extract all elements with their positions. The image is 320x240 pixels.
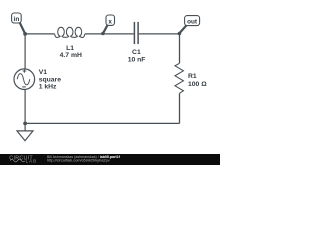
svg-text:C1: C1 bbox=[132, 49, 141, 56]
svg-text:out: out bbox=[187, 19, 198, 26]
svg-text:100 Ω: 100 Ω bbox=[188, 81, 207, 88]
resistor R1 bbox=[175, 63, 183, 93]
footer credit text bbox=[47, 155, 121, 163]
label C1 value bbox=[128, 49, 146, 63]
svg-text:V1: V1 bbox=[39, 69, 48, 76]
svg-text:1 kHz: 1 kHz bbox=[39, 84, 57, 91]
wire bbox=[85, 33, 134, 35]
node flag in bbox=[12, 13, 25, 34]
wire bbox=[179, 34, 181, 63]
svg-text:x: x bbox=[108, 18, 112, 25]
svg-text:10 nF: 10 nF bbox=[128, 57, 146, 64]
node junction out bbox=[178, 32, 182, 36]
svg-text:LAB: LAB bbox=[26, 159, 38, 164]
svg-text:R1: R1 bbox=[188, 73, 197, 80]
svg-text:4.7 mH: 4.7 mH bbox=[60, 52, 82, 59]
ground bbox=[17, 131, 33, 141]
wire bbox=[24, 90, 26, 131]
label V1 value bbox=[39, 69, 62, 91]
footer logo CircuitLab bbox=[9, 155, 37, 163]
node flag x bbox=[103, 15, 114, 33]
svg-text:square: square bbox=[39, 76, 62, 83]
svg-text:http://circuitlab.com/c6mk2hky: http://circuitlab.com/c6mk2hkyha2pv bbox=[47, 158, 110, 163]
label L1 value bbox=[60, 45, 82, 59]
wire bbox=[25, 122, 179, 124]
node junction in bbox=[23, 32, 27, 36]
svg-text:L1: L1 bbox=[66, 45, 74, 52]
node flag out bbox=[180, 16, 200, 33]
wire bbox=[179, 93, 181, 123]
label R1 value bbox=[188, 73, 207, 88]
capacitor C1 bbox=[134, 22, 138, 44]
voltage source V1 bbox=[14, 69, 35, 90]
inductor L1 bbox=[55, 27, 85, 37]
node junction ground bbox=[23, 122, 27, 126]
wire bbox=[139, 33, 180, 35]
footer bar bbox=[0, 154, 220, 165]
wire bbox=[24, 34, 26, 69]
node junction x bbox=[101, 32, 105, 36]
wire bbox=[25, 33, 54, 35]
svg-text:in: in bbox=[14, 16, 20, 23]
